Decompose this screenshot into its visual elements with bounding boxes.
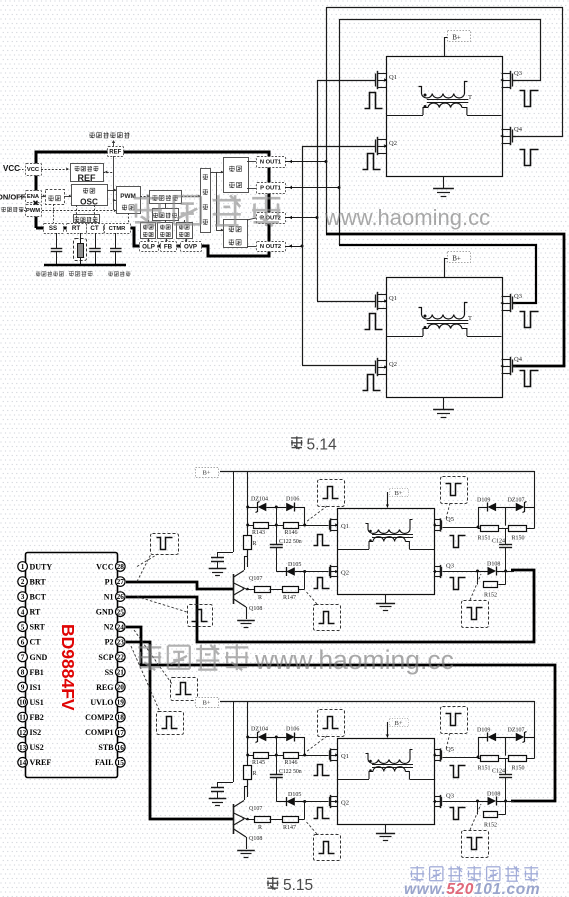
svg-text:Q3: Q3 [514,70,522,77]
svg-text:DZ104: DZ104 [251,497,268,503]
svg-text:20: 20 [117,683,125,692]
svg-text:VCC: VCC [96,562,114,571]
svg-text:VCC: VCC [27,167,40,173]
svg-text:C122 50n: C122 50n [279,769,302,775]
svg-text:BRT: BRT [30,577,47,586]
svg-text:SRT: SRT [30,623,46,632]
svg-text:21: 21 [117,668,125,677]
svg-text:N1: N1 [104,593,114,602]
svg-text:B+: B+ [452,254,461,262]
svg-text:VREF: VREF [30,758,52,767]
svg-text:T: T [468,315,472,322]
svg-text:REF: REF [109,149,121,155]
svg-text:GND: GND [96,608,114,617]
svg-text:11: 11 [19,713,26,722]
svg-text:T: T [468,94,472,101]
svg-text:5.14: 5.14 [307,437,338,454]
svg-text:D106: D106 [286,727,299,733]
svg-text:VCC: VCC [3,164,20,173]
svg-text:10: 10 [19,698,27,707]
svg-text:SCP: SCP [98,653,113,662]
svg-text:R146: R146 [285,530,298,536]
svg-text:DZ107: DZ107 [508,728,525,734]
svg-text:FB: FB [164,243,173,250]
svg-text:Q3: Q3 [446,793,454,800]
svg-text:P2: P2 [105,638,114,647]
svg-text:Q107: Q107 [249,576,262,582]
svg-text:D108: D108 [487,792,500,798]
svg-text:P1: P1 [105,577,114,586]
svg-text:Q5: Q5 [446,746,454,753]
svg-text:26: 26 [117,592,125,601]
svg-text:Q2: Q2 [389,361,397,368]
svg-text:www.haoming.cc: www.haoming.cc [324,205,490,230]
svg-text:www.520101.com: www.520101.com [404,881,540,897]
svg-text:27: 27 [117,577,125,586]
svg-text:Q3: Q3 [446,563,454,570]
svg-text:R145: R145 [252,760,265,766]
svg-text:FB2: FB2 [30,713,44,722]
svg-text:24: 24 [117,622,125,631]
svg-text:Q108: Q108 [249,836,262,842]
svg-text:N2: N2 [104,623,114,632]
svg-text:REF: REF [78,173,97,183]
svg-text:CTMR: CTMR [109,226,127,232]
svg-text:R147: R147 [283,595,296,601]
svg-text:C124: C124 [492,769,505,775]
svg-text:8: 8 [21,668,25,677]
svg-text:US1: US1 [30,698,44,707]
svg-text:R151: R151 [478,536,491,542]
svg-text:COMP1: COMP1 [85,728,113,737]
svg-text:4: 4 [21,607,25,616]
svg-text:FB1: FB1 [30,668,44,677]
svg-text:17: 17 [117,728,125,737]
svg-text:25: 25 [117,607,125,616]
svg-text:R: R [258,595,262,601]
svg-text:OSC: OSC [80,197,98,206]
svg-text:OVP: OVP [184,243,197,250]
svg-text:D109: D109 [477,498,490,504]
svg-text:SS: SS [105,668,114,677]
svg-text:5: 5 [21,622,25,631]
svg-text:2: 2 [21,577,25,586]
svg-text:Q1: Q1 [341,753,349,760]
svg-text:5.15: 5.15 [283,877,313,894]
svg-text:3: 3 [21,592,25,601]
svg-text:22: 22 [117,652,125,661]
svg-text:STB: STB [98,743,114,752]
svg-text:Q3: Q3 [514,293,522,300]
svg-text:D105: D105 [288,562,301,568]
svg-text:13: 13 [19,743,27,752]
svg-text:R151: R151 [478,766,491,772]
svg-text:R: R [253,771,257,777]
svg-text:R152: R152 [484,823,497,829]
svg-text:IS2: IS2 [30,728,42,737]
svg-text:UVLO: UVLO [90,698,113,707]
svg-text:D109: D109 [477,728,490,734]
svg-text:R: R [258,825,262,831]
svg-text:DZ104: DZ104 [251,727,268,733]
svg-text:DZ107: DZ107 [508,498,525,504]
svg-text:P OUT1: P OUT1 [260,186,282,192]
svg-text:Q4: Q4 [514,126,523,133]
svg-text:B+: B+ [452,33,461,41]
svg-text:14: 14 [19,758,27,767]
svg-text:ENA: ENA [27,194,40,200]
svg-text:Q107: Q107 [249,806,262,812]
svg-text:28: 28 [117,562,125,571]
svg-text:R146: R146 [285,760,298,766]
svg-text:15: 15 [117,758,125,767]
svg-text:D105: D105 [288,792,301,798]
svg-text:C122 50n: C122 50n [279,539,302,545]
svg-text:1: 1 [21,562,25,571]
svg-text:R147: R147 [283,825,296,831]
svg-text:PWM: PWM [120,193,136,200]
svg-text:R150: R150 [512,536,525,542]
svg-text:R152: R152 [484,593,497,599]
svg-text:7: 7 [21,652,25,661]
svg-text:R: R [253,541,257,547]
svg-text:19: 19 [117,698,125,707]
svg-text:RT: RT [30,608,41,617]
svg-text:Q108: Q108 [249,606,262,612]
svg-text:N OUT1: N OUT1 [260,160,282,166]
svg-text:C124: C124 [492,539,505,545]
svg-text:16: 16 [117,743,125,752]
svg-text:Q2: Q2 [341,570,349,577]
svg-text:B+: B+ [394,490,402,497]
svg-text:B+: B+ [202,700,210,707]
svg-text:BCT: BCT [30,593,47,602]
svg-text:CT: CT [30,638,42,647]
svg-text:OLP: OLP [142,243,155,250]
svg-text:12: 12 [19,728,27,737]
svg-text:PWM: PWM [26,208,40,214]
svg-text:DUTY: DUTY [30,562,53,571]
svg-text:B+: B+ [202,470,210,477]
svg-text:IS1: IS1 [30,683,42,692]
svg-text:Q2: Q2 [341,800,349,807]
svg-text:Q2: Q2 [389,140,397,147]
svg-text:18: 18 [117,713,125,722]
svg-text:FAIL: FAIL [95,758,114,767]
svg-text:B+: B+ [394,720,402,727]
svg-text:R150: R150 [512,766,525,772]
svg-text:D108: D108 [487,562,500,568]
svg-text:BD9884FV: BD9884FV [58,624,78,711]
svg-text:ON/OFF: ON/OFF [0,193,26,202]
svg-text:Q4: Q4 [514,356,523,363]
svg-text:D106: D106 [286,497,299,503]
svg-text:Q1: Q1 [389,74,397,81]
svg-text:R143: R143 [252,530,265,536]
svg-text:SS: SS [49,225,57,232]
svg-text:23: 23 [117,637,125,646]
svg-text:US2: US2 [30,743,44,752]
svg-text:RT: RT [72,225,80,232]
svg-text:Q5: Q5 [446,516,454,523]
svg-text:9: 9 [21,683,25,692]
svg-text:GND: GND [30,653,48,662]
svg-text:Q1: Q1 [341,523,349,530]
svg-text:REG: REG [96,683,113,692]
svg-text:6: 6 [21,637,25,646]
svg-text:COMP2: COMP2 [85,713,113,722]
svg-text:www.haoming.cc: www.haoming.cc [254,645,454,675]
svg-text:N OUT2: N OUT2 [260,244,281,250]
svg-text:CT: CT [90,225,98,232]
svg-text:Q1: Q1 [389,295,397,302]
